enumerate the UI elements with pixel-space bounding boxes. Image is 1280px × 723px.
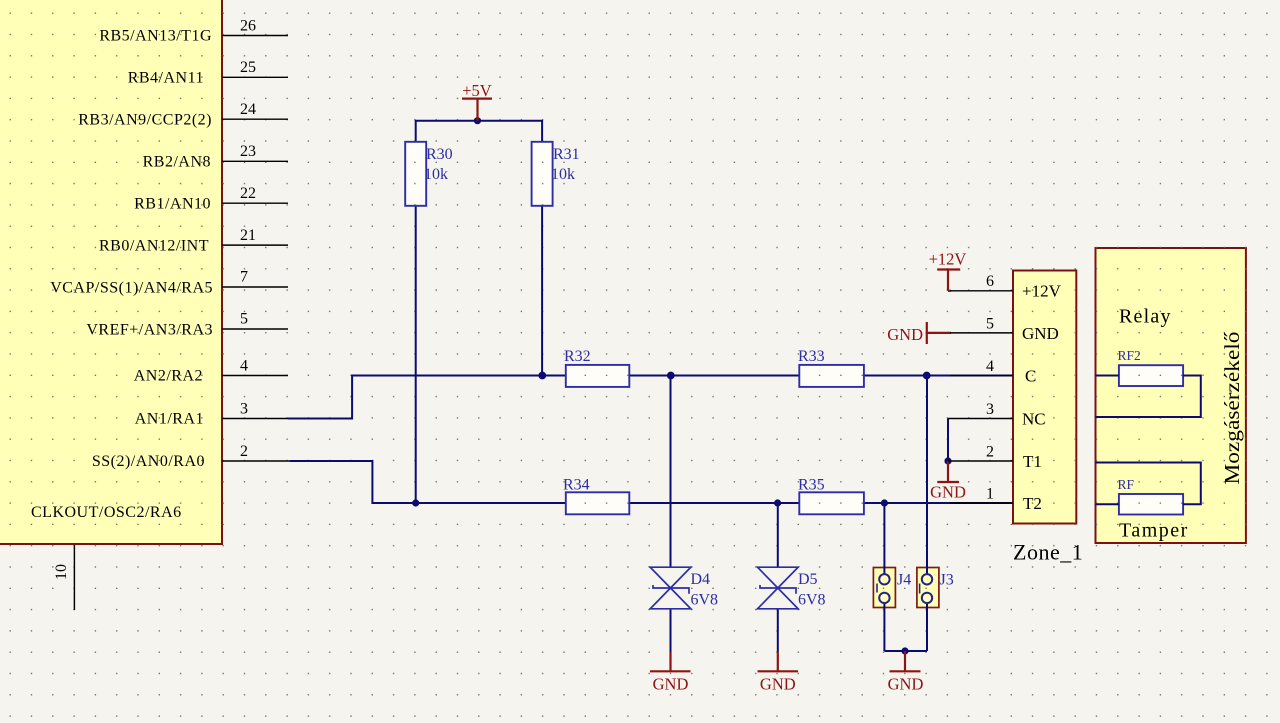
svg-text:VCAP/SS(1)/AN4/RA5: VCAP/SS(1)/AN4/RA5 xyxy=(50,279,213,296)
junction R31/AN1 node xyxy=(538,372,546,380)
ground GND below D5 symbol xyxy=(758,652,799,671)
svg-text:6: 6 xyxy=(986,273,994,290)
svg-text:+5V: +5V xyxy=(462,81,492,100)
resistor R35 outline xyxy=(799,492,864,514)
resistor R33 outline xyxy=(799,365,864,387)
svg-text:6V8: 6V8 xyxy=(798,592,826,609)
ground GND at Zone pin 5 symbol xyxy=(927,322,951,344)
wire J4 bottom xyxy=(883,603,885,651)
Zone pin 4 line xyxy=(950,375,1013,377)
svg-text:4: 4 xyxy=(240,358,248,375)
svg-text:+12V: +12V xyxy=(1022,282,1062,301)
junction +5V node xyxy=(474,117,481,124)
svg-text:D5: D5 xyxy=(798,571,818,588)
resistor R30 outline xyxy=(405,142,426,206)
pin 21 line xyxy=(222,244,288,246)
svg-text:RB5/AN13/T1G: RB5/AN13/T1G xyxy=(99,28,212,45)
svg-text:AN1/RA1: AN1/RA1 xyxy=(135,411,204,428)
Zone pin 1 line xyxy=(950,502,1013,504)
pin 2 line xyxy=(222,460,292,462)
junction D4 node xyxy=(667,372,675,380)
wire R33 to Zone pin 4 xyxy=(864,375,1013,377)
svg-text:24: 24 xyxy=(240,101,256,118)
svg-text:SS(2)/AN0/RA0: SS(2)/AN0/RA0 xyxy=(92,453,205,470)
wire node to J4 top xyxy=(883,503,885,574)
svg-text:GND: GND xyxy=(760,675,796,694)
svg-text:R32: R32 xyxy=(564,348,591,365)
svg-text:R33: R33 xyxy=(798,348,825,365)
svg-text:Zone_1: Zone_1 xyxy=(1013,540,1083,565)
wire J4-J3 ground link xyxy=(884,650,927,652)
ground GND at T1 symbol xyxy=(937,461,959,482)
resistor R30 body fill xyxy=(405,142,426,206)
pin 4 line xyxy=(222,375,288,377)
wire +5V rail xyxy=(416,121,542,142)
svg-text:RB4/AN11: RB4/AN11 xyxy=(128,70,204,87)
resistor RF body fill xyxy=(1119,494,1183,515)
power +5V symbol xyxy=(462,99,492,121)
junction J4 node xyxy=(881,499,888,506)
svg-text:C: C xyxy=(1025,367,1036,386)
svg-text:GND: GND xyxy=(930,483,966,502)
svg-text:21: 21 xyxy=(240,227,256,244)
IC U1 microcontroller block body xyxy=(0,0,222,544)
svg-text:GND: GND xyxy=(1022,324,1059,343)
svg-text:GND: GND xyxy=(653,675,689,694)
svg-text:5: 5 xyxy=(240,311,248,328)
resistor R34 outline xyxy=(566,492,630,514)
svg-text:7: 7 xyxy=(240,269,248,286)
wire node to D5 xyxy=(777,503,779,567)
wire R31 bottom to AN1 net xyxy=(541,206,543,376)
wire node to D4 xyxy=(670,376,672,568)
jumper J4 body xyxy=(873,568,895,608)
Zone pin 3 line xyxy=(948,418,1013,420)
wire RF2 relay loop xyxy=(1096,376,1201,418)
pin 26 line xyxy=(222,35,288,37)
svg-text:Mozgásérzékelő: Mozgásérzékelő xyxy=(1220,332,1244,485)
svg-text:GND: GND xyxy=(888,675,924,694)
svg-text:R34: R34 xyxy=(563,477,590,494)
svg-text:1: 1 xyxy=(986,486,994,503)
svg-text:Tamper: Tamper xyxy=(1119,520,1189,542)
svg-text:NC: NC xyxy=(1022,410,1046,429)
Zone pin 6 line xyxy=(950,290,1013,292)
svg-text:23: 23 xyxy=(240,143,256,160)
svg-text:D4: D4 xyxy=(691,571,711,588)
resistor RF outline xyxy=(1119,494,1183,515)
connector Zone_1 body xyxy=(1013,271,1076,524)
svg-text:6V8: 6V8 xyxy=(691,592,719,609)
ground GND below D4 symbol xyxy=(650,652,691,671)
svg-text:22: 22 xyxy=(240,185,256,202)
diode D5 TVS symbol xyxy=(758,567,799,609)
pin 3 line xyxy=(222,418,290,420)
junction J3 node xyxy=(923,372,931,380)
wire R34 to R35 xyxy=(629,502,799,504)
svg-text:T2: T2 xyxy=(1023,494,1042,513)
junction D5 node xyxy=(774,499,781,506)
svg-text:RB1/AN10: RB1/AN10 xyxy=(134,196,211,213)
svg-text:T1: T1 xyxy=(1023,452,1042,471)
resistor R35 body fill xyxy=(799,492,864,514)
svg-text:VREF+/AN3/RA3: VREF+/AN3/RA3 xyxy=(86,321,213,338)
svg-text:10k: 10k xyxy=(424,166,448,183)
wire R35 to Zone pin 1 xyxy=(864,502,1013,504)
sensor block Mozgásérzékelő body xyxy=(1096,248,1246,543)
svg-text:R31: R31 xyxy=(553,146,580,163)
svg-text:GND: GND xyxy=(887,325,923,344)
power +12V symbol xyxy=(937,270,960,291)
jumper J3 body xyxy=(917,568,939,608)
resistor R32 outline xyxy=(566,365,630,387)
resistor R31 body fill xyxy=(532,142,553,206)
svg-text:Relay: Relay xyxy=(1119,306,1172,328)
pin 10 line xyxy=(73,545,75,610)
pin 25 line xyxy=(222,76,288,78)
jumper J4 pin pads xyxy=(879,574,889,603)
junction R30/AN0 node xyxy=(412,499,419,506)
jumper J4 pin 1 tick xyxy=(876,584,878,593)
wire R32 to R33 xyxy=(629,375,799,377)
svg-text:R30: R30 xyxy=(426,146,453,163)
jumper J3 pin pads xyxy=(922,574,932,603)
junction T1/NC node xyxy=(944,457,951,464)
svg-text:26: 26 xyxy=(240,18,256,35)
wire D5 to ground stub xyxy=(777,609,779,652)
wire RF tamper loop xyxy=(1096,463,1201,505)
ground GND below jumpers symbol xyxy=(890,651,921,671)
svg-text:RB3/AN9/CCP2(2): RB3/AN9/CCP2(2) xyxy=(78,112,212,129)
wire D4 to ground stub xyxy=(670,609,672,652)
wire node to J3 top xyxy=(926,376,928,575)
pin 5 line xyxy=(222,328,288,330)
Zone pin 2 line xyxy=(948,460,1013,462)
svg-text:RB2/AN8: RB2/AN8 xyxy=(143,154,211,171)
wire Zone NC to T1 xyxy=(947,419,949,462)
svg-text:CLKOUT/OSC2/RA6: CLKOUT/OSC2/RA6 xyxy=(31,504,182,521)
wire AN1 net from pin 3 xyxy=(288,376,566,419)
wire AN0 net from pin 2 xyxy=(290,461,566,503)
resistor RF2 body fill xyxy=(1119,365,1183,386)
svg-text:RF2: RF2 xyxy=(1118,348,1141,363)
svg-text:4: 4 xyxy=(986,358,994,375)
svg-text:10k: 10k xyxy=(551,166,575,183)
svg-text:AN2/RA2: AN2/RA2 xyxy=(134,368,203,385)
wire J3 bottom xyxy=(926,603,928,651)
svg-text:3: 3 xyxy=(986,401,994,418)
svg-text:RB0/AN12/INT: RB0/AN12/INT xyxy=(99,238,209,255)
svg-text:J4: J4 xyxy=(897,572,911,589)
svg-text:RF: RF xyxy=(1118,477,1135,492)
pin 22 line xyxy=(222,202,288,204)
svg-text:10: 10 xyxy=(53,564,70,580)
resistor RF2 outline xyxy=(1119,365,1183,386)
resistor R32 body fill xyxy=(566,365,630,387)
svg-text:R35: R35 xyxy=(798,477,825,494)
resistor R33 body fill xyxy=(799,365,864,387)
svg-text:3: 3 xyxy=(240,401,248,418)
svg-text:25: 25 xyxy=(240,59,256,76)
svg-text:+12V: +12V xyxy=(929,250,967,269)
svg-text:5: 5 xyxy=(986,316,994,333)
svg-text:2: 2 xyxy=(986,444,994,461)
jumper J3 pin 1 tick xyxy=(919,584,921,594)
svg-text:J3: J3 xyxy=(940,572,954,589)
pin 24 line xyxy=(222,118,288,120)
pin 7 line xyxy=(222,286,288,288)
junction jumper ground node xyxy=(901,647,908,654)
resistor R34 body fill xyxy=(566,492,630,514)
Zone pin 5 line xyxy=(950,332,1013,334)
svg-text:2: 2 xyxy=(240,443,248,460)
resistor R31 outline xyxy=(532,142,553,206)
diode D4 TVS symbol xyxy=(650,567,691,609)
wire R30 bottom to AN0 net xyxy=(415,206,417,503)
pin 23 line xyxy=(222,160,288,162)
